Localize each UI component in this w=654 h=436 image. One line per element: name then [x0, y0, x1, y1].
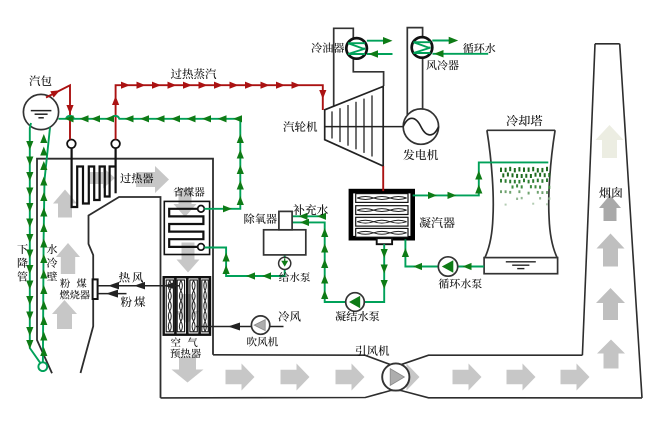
gas flow arrow air preheater — [175, 294, 199, 324]
economizer box — [164, 201, 209, 254]
circulating pump impeller — [442, 260, 454, 273]
gas flow arrow chimney 3 — [597, 234, 625, 267]
feedwater pump to economizer line — [204, 248, 284, 277]
label 冷却塔 — [506, 115, 542, 126]
chimney right edge — [620, 44, 642, 398]
saturated steam line drum to superheater — [46, 85, 70, 139]
gas flow arrow chimney 5 — [597, 340, 625, 369]
feedwater pump circle — [279, 257, 291, 269]
cooling tower spray droplets — [500, 167, 550, 206]
generator circle — [403, 109, 438, 144]
label 循环水 — [463, 43, 495, 53]
cooling tower shell right — [549, 130, 557, 257]
label 热风 — [119, 272, 143, 283]
duct top edge with fan venturi — [213, 355, 582, 365]
deaerator to feed pump stub — [284, 255, 286, 258]
circulating pump circle — [438, 257, 457, 276]
label 凝汽器 — [419, 217, 454, 228]
label 引风机 — [356, 345, 389, 356]
steam drum circle — [23, 94, 58, 129]
drum water level symbol — [31, 111, 52, 118]
air preheater — [164, 277, 210, 335]
chimney top edge — [595, 43, 620, 45]
boiler furnace outer wall — [37, 159, 213, 374]
coal feed line — [98, 293, 127, 295]
label 汽轮机 — [283, 121, 317, 132]
gas flow arrow chimney 4 — [596, 288, 625, 320]
feedwater line economizer to drum — [59, 116, 241, 209]
label 循环水泵 — [439, 278, 482, 288]
economizer inlet circle — [198, 244, 205, 251]
condensate line condenser to deaerator — [365, 244, 385, 302]
label 除氧器 — [244, 213, 276, 223]
gas flow arrow duct entry — [172, 357, 204, 383]
air cooler water in line — [433, 53, 489, 55]
cooling tower basin — [484, 258, 557, 274]
makeup water line — [292, 215, 326, 217]
gas flow arrow duct 7 — [561, 364, 590, 391]
air cooler pipe — [407, 28, 422, 116]
turbine-generator shaft — [325, 126, 404, 128]
label 预热器 — [170, 348, 201, 358]
label 粉 煤 — [60, 278, 86, 287]
turbine blades — [331, 111, 333, 138]
label 粉煤 — [121, 296, 146, 307]
cooling tower top edge — [487, 129, 555, 131]
steam turbine — [325, 86, 384, 166]
label 烟囱 — [599, 187, 622, 198]
superheater outlet header drop — [114, 146, 116, 193]
warm water line condenser to cooling tower — [413, 162, 549, 195]
induced draft fan circle — [382, 363, 409, 390]
superheater coil — [72, 146, 115, 207]
label 补充水 — [293, 204, 328, 215]
furnace inner wall and second pass wall — [81, 197, 161, 398]
gas flow arrow duct 2 — [281, 364, 310, 391]
label 风冷器 — [426, 60, 458, 70]
blower fan circle — [251, 316, 269, 334]
oil cooler water in line — [367, 53, 393, 55]
gas flow arrow duct 6 — [507, 364, 536, 391]
gas flow arrow duct 5 — [453, 364, 482, 391]
air cooler circle — [412, 37, 433, 58]
condenser — [351, 191, 413, 238]
blower impeller — [254, 320, 265, 331]
label 过热器 — [120, 173, 153, 183]
deaerator head — [279, 211, 292, 229]
oil cooler circle — [346, 38, 367, 59]
label 燃烧器 — [60, 290, 90, 299]
superheater outlet header circle — [111, 140, 120, 149]
duct bottom edge with fan venturi — [161, 390, 643, 398]
turbine inlet pipe / oil cooler pipe — [334, 28, 384, 106]
gas flow arrow economizer top — [174, 188, 197, 217]
economizer coil — [169, 209, 203, 247]
deaerator tank — [264, 230, 306, 255]
gas flow arrow duct 4 — [391, 364, 420, 391]
waterwall riser line — [43, 128, 50, 363]
pulverized coal burner — [93, 279, 98, 299]
label 冷风 — [278, 311, 300, 322]
gas flow arrow duct 1 — [226, 364, 255, 391]
label 下降管 — [17, 244, 27, 281]
label 吹风机 — [247, 337, 278, 347]
economizer outlet circle — [198, 206, 205, 213]
label 汽包 — [29, 75, 51, 86]
chimney left edge — [582, 44, 595, 355]
superheater inlet header circle — [67, 140, 76, 149]
gas flow arrow chimney 2 — [599, 195, 621, 221]
condensate pump circle — [346, 293, 365, 312]
downcomer line — [30, 123, 40, 363]
gas flow arrow duct 3 — [336, 364, 365, 391]
label 给水泵 — [279, 272, 310, 282]
air cooler water out line — [432, 40, 450, 42]
induced draft fan impeller — [390, 369, 404, 386]
label 空 气 — [171, 337, 198, 347]
basin water level symbol — [506, 262, 536, 269]
gas flow arrow chimney 1 (pale) — [596, 125, 624, 158]
label 省煤器 — [173, 187, 204, 197]
gas flow arrow economizer bottom — [177, 243, 200, 273]
feedwater pump impeller — [281, 261, 288, 267]
turbine exhaust to condenser — [382, 166, 384, 191]
label 凝结水泵 — [335, 311, 379, 321]
label 发电机 — [403, 149, 438, 160]
gas flow arrow furnace middle — [56, 243, 80, 274]
gas flow arrow furnace lower — [52, 300, 77, 329]
generator sine wave — [403, 118, 438, 135]
oil cooler water out line — [367, 40, 385, 42]
gas flow arrow crossover right — [136, 166, 169, 193]
hot air line to burner — [98, 285, 180, 287]
cold air line blower to preheater — [196, 326, 252, 328]
superheated steam line to turbine — [116, 85, 323, 139]
gas flow arrow crossover left — [88, 168, 115, 189]
label 水冷壁 — [47, 244, 58, 281]
label 冷油器 — [311, 42, 344, 52]
circulating water line tower to condenser — [458, 266, 484, 268]
waterwall bottom header circle — [38, 362, 47, 371]
condensate pump impeller — [349, 296, 360, 308]
cooling tower shell left — [485, 130, 493, 257]
label 过热蒸汽 — [171, 68, 216, 79]
gas flow arrow furnace upper — [53, 190, 77, 218]
